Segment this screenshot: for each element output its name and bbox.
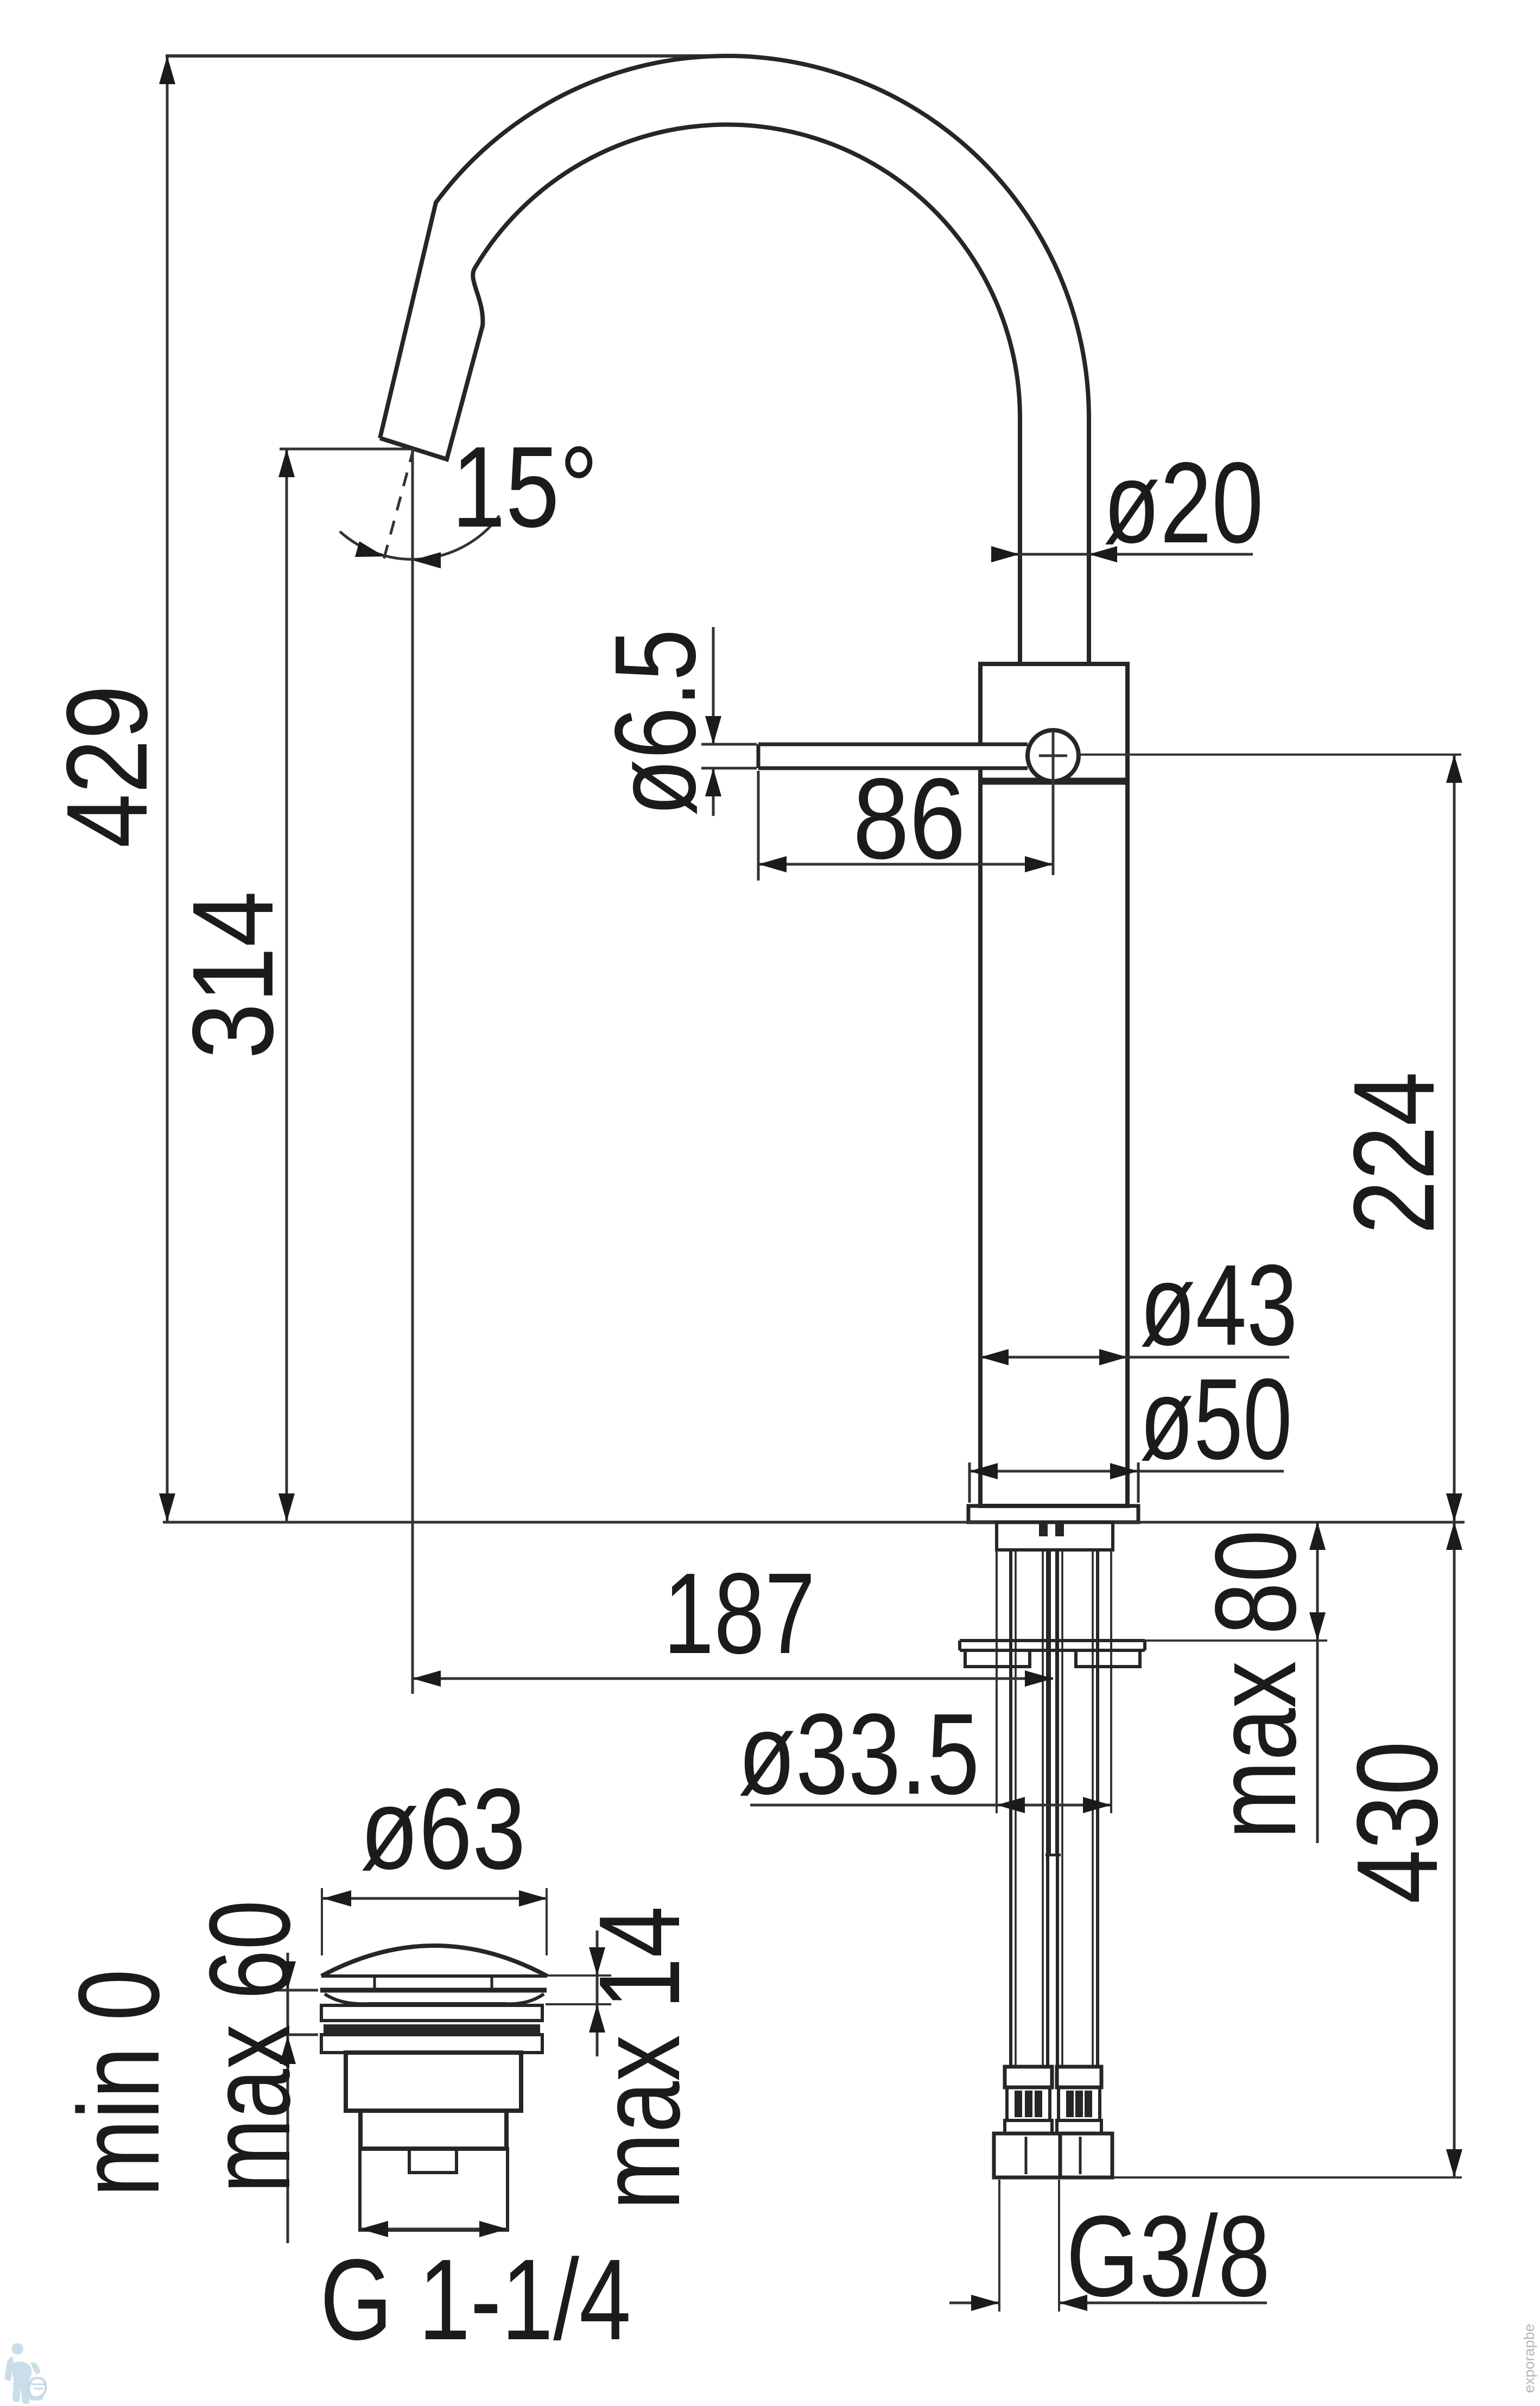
svg-text:86: 86 — [853, 754, 966, 883]
svg-text:ø43: ø43 — [1140, 1240, 1298, 1369]
dim o50 label — [1140, 1354, 1292, 1483]
svg-text:max 60: max 60 — [185, 1900, 314, 2193]
dim 314 top extension line — [280, 448, 414, 451]
svg-text:430: 430 — [1333, 1741, 1461, 1904]
dim G1-1/4 label — [320, 2235, 631, 2364]
dim G3/8 extension left — [998, 2180, 1000, 2312]
drain cap under plate — [320, 1988, 547, 1993]
dim o6.5 line lower — [705, 768, 721, 816]
dim o33.5 line — [750, 1797, 1111, 1813]
dim o63 label — [360, 1764, 526, 1893]
dim max60 tick upper — [275, 1989, 318, 1992]
faucet head joint thick line — [980, 778, 1127, 785]
pivot cross vertical — [1052, 730, 1055, 875]
svg-text:exporapbe: exporapbe — [1521, 2323, 1537, 2393]
dim max60 label — [185, 1900, 314, 2193]
dim max14 extension upper — [547, 1974, 611, 1977]
svg-text:max 14: max 14 — [575, 1906, 704, 2210]
dim 430 line — [1446, 1522, 1462, 2177]
dim 187 label — [663, 1549, 815, 1677]
svg-text:ø63: ø63 — [360, 1764, 526, 1893]
dim G3/8 line right — [1059, 2295, 1267, 2311]
dim G3/8 line left — [949, 2295, 999, 2311]
dim G1-1/4 line — [360, 2221, 508, 2237]
svg-text:187: 187 — [663, 1549, 815, 1677]
dim max80 extension line — [1145, 1639, 1327, 1642]
drain upper body — [346, 2053, 521, 2111]
dim o50 line — [969, 1463, 1284, 1479]
svg-text:15°: 15° — [452, 422, 598, 551]
drain washer upper — [321, 2005, 542, 2021]
dim o6.5 label — [591, 629, 719, 816]
horseshoe washer bar — [960, 1641, 1145, 1650]
dim max60 tick lower — [275, 2034, 318, 2036]
drain washer lower — [321, 2035, 542, 2053]
dim max14 extension lower — [546, 2003, 611, 2005]
drain rubber gasket — [324, 2024, 540, 2033]
dim o50 tick right — [1137, 1462, 1140, 1503]
drain cap tick right — [491, 1977, 493, 1989]
svg-text:314: 314 — [168, 891, 297, 1059]
svg-text:G3/8: G3/8 — [1066, 2192, 1270, 2320]
drain cap dome — [321, 1946, 547, 1976]
dim 429 top extension line — [166, 54, 750, 58]
left hose fitting with G3/8 nut — [994, 2067, 1060, 2177]
dim 430 bottom extension line — [1112, 2176, 1462, 2179]
dim o33.5 extension left — [996, 1550, 998, 1813]
svg-text:224: 224 — [1329, 1072, 1458, 1234]
drain cap tick left — [373, 1977, 376, 1989]
svg-text:ø33.5: ø33.5 — [738, 1689, 980, 1818]
drain cap underside dish — [325, 1994, 544, 2004]
handle lever bar — [758, 744, 1028, 768]
svg-text:min 0: min 0 — [54, 1969, 183, 2197]
faucet spout (gooseneck tube) — [380, 56, 1089, 664]
dim 86 line — [758, 856, 1053, 872]
drain threaded tail — [360, 2149, 508, 2230]
svg-text:max 80: max 80 — [1191, 1530, 1320, 1839]
dim max14 label — [575, 1906, 704, 2210]
dim max14 line — [589, 1930, 605, 2056]
dim o63 extension left — [321, 1888, 323, 1955]
dim o50 tick left — [968, 1462, 971, 1503]
dim o20 line — [991, 546, 1253, 562]
dim o33.5 label — [738, 1689, 980, 1818]
15deg dashed reference line — [383, 448, 414, 561]
right supply hose tube — [1057, 1550, 1098, 2067]
watermark plumber logo — [5, 2343, 46, 2404]
dim o33.5 extension right — [1110, 1550, 1112, 1813]
15deg angle arc — [340, 516, 499, 568]
dim 224 extension line — [1079, 754, 1461, 756]
dim o20 label — [1104, 438, 1264, 567]
svg-text:G 1-1/4: G 1-1/4 — [320, 2235, 631, 2364]
dim G3/8 label — [1066, 2192, 1270, 2320]
svg-text:ø20: ø20 — [1104, 438, 1264, 567]
horseshoe washer right lip — [1076, 1650, 1140, 1667]
dim G3/8 extension right — [1058, 2180, 1060, 2312]
drain pull rod — [1045, 1550, 1061, 1855]
dim 429 vertical line — [159, 56, 175, 1522]
dim 86 extension left — [757, 771, 760, 881]
horseshoe washer left lip — [965, 1650, 1030, 1667]
fixing block notch left — [1039, 1523, 1048, 1536]
svg-text:ø50: ø50 — [1140, 1354, 1292, 1483]
dim 224 label — [1329, 1072, 1458, 1234]
pivot cross horizontal — [1039, 755, 1067, 757]
dim 187 line — [413, 1670, 1053, 1687]
dim o43 line — [980, 1349, 1289, 1365]
dim o43 label — [1140, 1240, 1298, 1369]
dim max80 label — [1191, 1530, 1320, 1839]
left supply hose tube — [1011, 1550, 1048, 2067]
right hose fitting with G3/8 nut — [1057, 2067, 1112, 2177]
spout tip vertical extension line — [411, 448, 414, 1694]
15deg label — [452, 422, 598, 551]
drain tail notch — [409, 2149, 457, 2173]
handle pivot circle — [1028, 730, 1079, 781]
dim o63 line — [323, 1890, 547, 1907]
svg-text:ø6.5: ø6.5 — [591, 629, 719, 816]
dim 314 vertical line — [278, 449, 295, 1522]
dim max80 line — [1309, 1522, 1326, 1843]
svg-text:429: 429 — [42, 685, 171, 848]
countertop line — [163, 1521, 1465, 1524]
dim o6.5 line upper — [705, 627, 721, 744]
under-counter fixing block — [997, 1522, 1113, 1550]
faucet body cylinder — [980, 664, 1127, 1506]
fixing block notch right — [1055, 1523, 1064, 1536]
dim 429 label — [42, 685, 171, 848]
dim o6.5 tick top — [701, 743, 757, 746]
dim 86 label — [853, 754, 966, 883]
dim min0 label — [54, 1969, 183, 2197]
dim o63 extension right — [546, 1888, 548, 1955]
dim 314 label — [168, 891, 297, 1059]
dim 224 line — [1446, 755, 1462, 1522]
dim 430 label — [1333, 1741, 1461, 1904]
drain mid body — [360, 2111, 506, 2149]
dim o6.5 tick bottom — [701, 767, 757, 770]
edge watermark text — [1521, 2323, 1537, 2393]
base plate flange — [968, 1506, 1138, 1522]
dim max60 line — [280, 1953, 296, 2243]
